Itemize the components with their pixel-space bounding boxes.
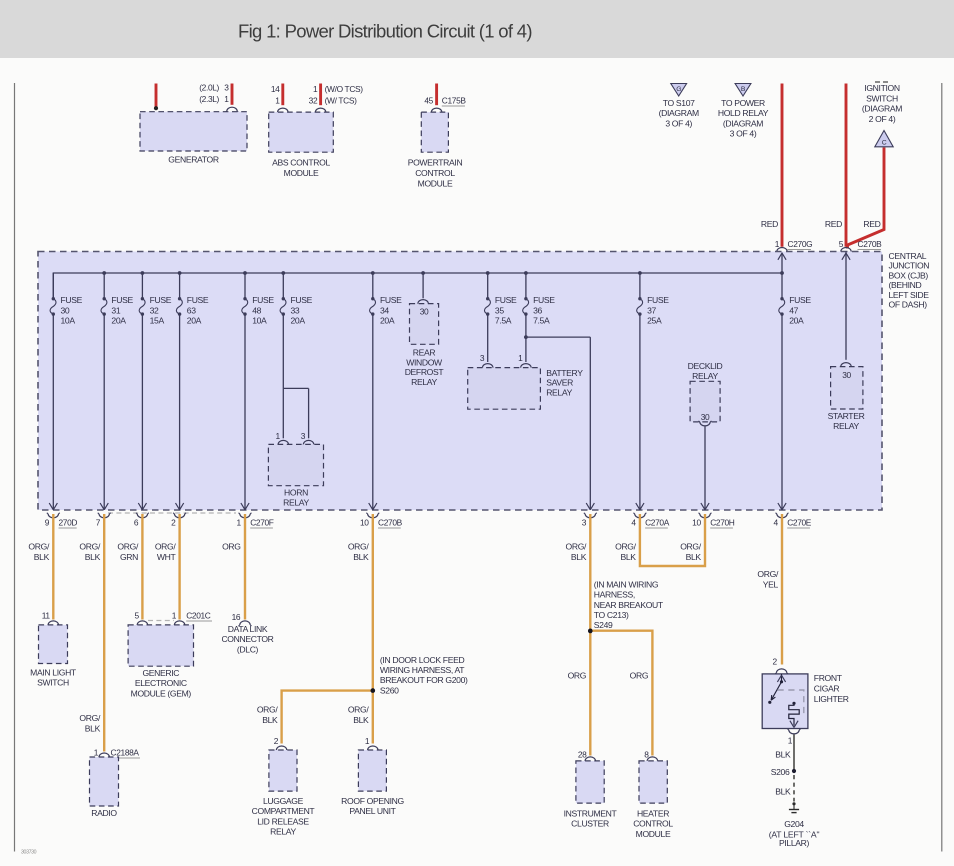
fuse 37 25A <box>637 297 643 316</box>
svg-text:1: 1 <box>313 84 318 94</box>
svg-text:FUSE: FUSE <box>647 295 669 305</box>
svg-text:NEAR BREAKOUT: NEAR BREAKOUT <box>594 600 664 610</box>
svg-text:(W/ TCS): (W/ TCS) <box>325 96 357 106</box>
svg-text:20A: 20A <box>111 316 126 326</box>
svg-text:S249: S249 <box>594 620 613 630</box>
svg-text:MODULE (GEM): MODULE (GEM) <box>131 688 192 698</box>
svg-text:36: 36 <box>533 305 542 315</box>
connector cup pin 4 <box>635 514 645 518</box>
connector dome DLC <box>240 621 250 625</box>
svg-text:ORG: ORG <box>222 542 241 552</box>
svg-text:ORG: ORG <box>568 671 587 681</box>
node bus junction F48 <box>243 271 247 275</box>
svg-text:C270H: C270H <box>710 518 735 528</box>
arrow out of CJB <box>369 503 377 510</box>
wire horn relay pin1 drop <box>282 388 284 438</box>
svg-text:6: 6 <box>134 518 139 528</box>
svg-text:RELAY: RELAY <box>692 371 718 381</box>
svg-text:10: 10 <box>360 518 369 528</box>
wire red from ignition switch triangle C <box>848 148 885 249</box>
svg-text:1: 1 <box>94 748 99 758</box>
svg-text:C270E: C270E <box>787 518 812 528</box>
svg-text:3 OF 4): 3 OF 4) <box>730 129 757 139</box>
svg-text:CONNECTOR: CONNECTOR <box>221 634 273 644</box>
svg-text:ORG/: ORG/ <box>79 713 101 723</box>
instrument cluster box <box>576 761 604 803</box>
svg-text:INSTRUMENT: INSTRUMENT <box>564 809 618 819</box>
svg-text:HARNESS,: HARNESS, <box>594 590 635 600</box>
svg-text:FUSE: FUSE <box>150 295 172 305</box>
roof opening panel box <box>358 750 386 791</box>
connector dome battery saver 3 <box>483 364 493 368</box>
wire F36 to battery saver pin1 <box>525 314 527 362</box>
connector dome C270B <box>841 248 851 252</box>
svg-text:LUGGAGE: LUGGAGE <box>263 796 304 806</box>
svg-text:2: 2 <box>274 736 279 746</box>
svg-text:1: 1 <box>224 94 229 104</box>
svg-text:FUSE: FUSE <box>291 295 313 305</box>
svg-text:20A: 20A <box>380 316 395 326</box>
svg-text:FUSE: FUSE <box>380 295 402 305</box>
svg-text:C270B: C270B <box>378 518 403 528</box>
svg-text:7.5A: 7.5A <box>533 316 550 326</box>
svg-text:TO S107: TO S107 <box>663 98 695 108</box>
switch contact dots cigar <box>780 680 783 683</box>
wire bus <box>53 273 782 299</box>
wire ORG/BLK from pin3 <box>589 514 591 631</box>
svg-text:STARTER: STARTER <box>828 411 865 421</box>
svg-text:30: 30 <box>701 412 710 422</box>
svg-text:32: 32 <box>150 305 159 315</box>
connector dome cigar lighter <box>776 669 786 673</box>
svg-text:(DIAGRAM: (DIAGRAM <box>862 104 902 114</box>
wire red generator pin A <box>155 84 158 108</box>
svg-text:DEFROST: DEFROST <box>405 367 445 377</box>
svg-text:30: 30 <box>61 305 70 315</box>
wire red to C270B <box>845 84 848 247</box>
svg-text:10: 10 <box>692 518 701 528</box>
wire BLK to S206 <box>793 735 795 770</box>
svg-text:4: 4 <box>773 518 778 528</box>
svg-text:DECKLID: DECKLID <box>688 361 723 371</box>
node S260 redraw <box>371 688 376 693</box>
node bus junction F63 <box>178 271 182 275</box>
node generator splice dot <box>154 106 158 110</box>
svg-text:(DIAGRAM: (DIAGRAM <box>723 118 763 128</box>
connector dome PCM <box>431 108 441 112</box>
svg-text:5: 5 <box>134 611 139 621</box>
svg-text:5: 5 <box>839 239 844 249</box>
svg-text:BLK: BLK <box>34 552 50 562</box>
svg-text:FUSE: FUSE <box>495 295 517 305</box>
svg-text:14: 14 <box>271 84 280 94</box>
svg-text:1: 1 <box>275 96 280 106</box>
arrow out of CJB <box>701 503 709 510</box>
svg-text:32: 32 <box>309 96 318 106</box>
svg-text:(DLC): (DLC) <box>237 644 259 654</box>
wire S260 down to roof unit <box>372 691 374 744</box>
connector dome battery saver 1 <box>521 364 531 368</box>
fuse 35 7.5A <box>484 297 490 316</box>
svg-text:1: 1 <box>788 736 793 746</box>
svg-text:2 OF 4): 2 OF 4) <box>869 114 896 124</box>
svg-text:2: 2 <box>171 518 176 528</box>
svg-text:(IN MAIN WIRING: (IN MAIN WIRING <box>594 580 659 590</box>
svg-text:HEATER: HEATER <box>637 809 669 819</box>
wire bus to fuse 30 <box>52 273 54 299</box>
svg-text:ORG/: ORG/ <box>257 705 279 715</box>
svg-text:ORG/: ORG/ <box>155 542 177 552</box>
wire F63 column <box>179 314 181 510</box>
luggage relay box <box>269 750 297 791</box>
svg-text:RED: RED <box>761 219 778 229</box>
svg-text:GENERATOR: GENERATOR <box>168 155 219 165</box>
powertrain control module box <box>421 112 448 152</box>
svg-text:1: 1 <box>236 518 241 528</box>
svg-text:ORG/: ORG/ <box>348 542 370 552</box>
svg-text:BLK: BLK <box>353 715 369 725</box>
svg-text:ORG/: ORG/ <box>348 705 370 715</box>
svg-text:303730: 303730 <box>21 850 37 856</box>
svg-text:ORG/: ORG/ <box>566 542 588 552</box>
svg-text:HOLD RELAY: HOLD RELAY <box>718 108 769 118</box>
connector C201C gray dashed line <box>148 620 174 622</box>
svg-text:35: 35 <box>495 305 504 315</box>
ABS control module box <box>269 112 334 152</box>
connector cup pin 9 <box>48 514 58 518</box>
wire ORG/BLK U-link C270A to C270H <box>640 514 705 566</box>
arrow out of CJB <box>176 503 184 510</box>
svg-text:30: 30 <box>842 370 851 380</box>
fuse 63 20A <box>176 297 182 316</box>
node S206 <box>792 769 796 773</box>
svg-text:10A: 10A <box>61 316 76 326</box>
svg-text:PILLAR): PILLAR) <box>779 838 810 848</box>
svg-text:MODULE: MODULE <box>284 168 319 178</box>
svg-text:LEFT SIDE: LEFT SIDE <box>889 290 930 300</box>
svg-text:10A: 10A <box>252 316 267 326</box>
svg-text:ROOF OPENING: ROOF OPENING <box>341 796 404 806</box>
svg-text:3: 3 <box>224 83 229 93</box>
fuse 47 20A <box>779 297 785 316</box>
wire F36 branch horizontal <box>526 336 590 338</box>
svg-text:ORG/: ORG/ <box>117 542 139 552</box>
svg-text:C270B: C270B <box>858 239 883 249</box>
svg-text:BLK: BLK <box>775 787 791 797</box>
node bus junction defrost <box>421 271 425 275</box>
svg-text:MAIN LIGHT: MAIN LIGHT <box>30 668 77 678</box>
svg-text:SAVER: SAVER <box>546 378 573 388</box>
generator box <box>140 112 247 151</box>
arrow out of CJB <box>241 503 249 510</box>
connector dome heater control <box>647 757 657 761</box>
svg-text:RELAY: RELAY <box>411 377 437 387</box>
wire F34 column <box>372 314 374 510</box>
svg-text:MODULE: MODULE <box>418 178 453 188</box>
svg-text:CENTRAL: CENTRAL <box>889 251 927 261</box>
arrow into CJB at C270G <box>778 253 786 260</box>
svg-text:BLK: BLK <box>85 552 101 562</box>
svg-text:47: 47 <box>789 305 798 315</box>
svg-text:270D: 270D <box>59 518 78 528</box>
wire red generator pin 3/1 <box>231 84 234 105</box>
arrow into CJB at C270B <box>842 253 850 260</box>
svg-text:G: G <box>676 86 681 93</box>
wire F30 column <box>52 314 54 510</box>
svg-text:FUSE: FUSE <box>111 295 133 305</box>
node bus junction F37 <box>638 271 642 275</box>
connector dome instrument cluster <box>585 757 595 761</box>
svg-text:2: 2 <box>772 657 777 667</box>
svg-text:C: C <box>882 140 887 147</box>
connector C270F gray dashed line <box>108 512 236 514</box>
arrow out of CJB <box>586 503 594 510</box>
svg-text:RELAY: RELAY <box>833 421 859 431</box>
wire C270G entry stem <box>781 253 783 274</box>
wire defrost relay feed <box>422 273 424 298</box>
wire ORG/YEL to cigar lighter <box>781 514 783 665</box>
fuse 32 15A <box>139 297 145 316</box>
wire C270B to starter relay <box>845 252 847 360</box>
svg-text:FUSE: FUSE <box>187 295 209 305</box>
svg-text:CIGAR: CIGAR <box>814 683 840 693</box>
svg-text:RED: RED <box>825 219 842 229</box>
node bus junction F31 <box>102 271 106 275</box>
svg-text:(BEHIND: (BEHIND <box>889 280 922 290</box>
svg-text:RELAY: RELAY <box>283 498 309 508</box>
wire F47 column <box>781 314 783 510</box>
connector dome luggage relay <box>276 746 286 750</box>
svg-text:3: 3 <box>301 431 306 441</box>
svg-text:20A: 20A <box>789 316 804 326</box>
wire bus to fuse 33 <box>282 273 284 299</box>
svg-text:MODULE: MODULE <box>636 829 671 839</box>
node bus junction F32 <box>141 271 145 275</box>
svg-text:ORG/: ORG/ <box>757 569 779 579</box>
svg-text:C270G: C270G <box>788 239 813 249</box>
svg-text:FUSE: FUSE <box>252 295 274 305</box>
svg-text:34: 34 <box>380 305 389 315</box>
node S260 <box>371 688 375 692</box>
wire red ABS pin 14/1 <box>281 84 284 106</box>
wire ORG/WHT to GEM pin1 <box>178 514 180 620</box>
svg-text:BLK: BLK <box>85 723 101 733</box>
wire F48 column <box>244 314 246 510</box>
connector cup decklid <box>700 422 710 426</box>
svg-text:3 OF 4): 3 OF 4) <box>665 118 692 128</box>
GEM box <box>128 625 193 666</box>
wire ORG/GRN to GEM pin5 <box>141 514 143 620</box>
main light switch box <box>39 625 68 664</box>
svg-text:GRN: GRN <box>120 552 138 562</box>
svg-text:RELAY: RELAY <box>546 387 572 397</box>
fuse 48 10A <box>242 297 248 316</box>
svg-text:31: 31 <box>111 305 120 315</box>
connector dome radio <box>99 753 109 757</box>
svg-text:WINDOW: WINDOW <box>406 357 443 367</box>
svg-text:PANEL UNIT: PANEL UNIT <box>349 806 396 816</box>
connector dome ABS left <box>278 108 288 112</box>
wire bus to fuse 36 <box>525 273 527 299</box>
svg-text:RELAY: RELAY <box>270 827 296 837</box>
svg-text:WHT: WHT <box>157 552 177 562</box>
wire F36 branch down to pin 3 <box>589 337 591 510</box>
fuse 31 20A <box>101 297 107 316</box>
connector dome generator <box>227 107 237 111</box>
svg-text:CONTROL: CONTROL <box>415 168 455 178</box>
wire BLK dashed to ground <box>793 775 795 802</box>
svg-text:(IN DOOR LOCK FEED: (IN DOOR LOCK FEED <box>380 655 465 665</box>
svg-text:COMPARTMENT: COMPARTMENT <box>252 806 316 816</box>
svg-text:ELECTRONIC: ELECTRONIC <box>135 678 187 688</box>
central junction box CJB <box>38 252 882 511</box>
connector dome GEM pin5 <box>137 621 147 625</box>
connector dome roof unit <box>368 746 378 750</box>
svg-text:BLK: BLK <box>686 552 702 562</box>
svg-text:1: 1 <box>518 353 523 363</box>
switch blade cigar lighter <box>771 682 781 700</box>
starter relay box <box>831 367 863 409</box>
svg-text:11: 11 <box>42 611 51 621</box>
wire horn relay split horizontal <box>283 387 308 389</box>
svg-text:7: 7 <box>96 518 101 528</box>
connector cup pin 10 <box>700 514 710 518</box>
arrow out of CJB <box>49 503 57 510</box>
svg-text:BLK: BLK <box>571 552 587 562</box>
svg-text:7.5A: 7.5A <box>495 316 512 326</box>
wire bus to fuse 31 <box>103 273 105 299</box>
connector dome C270G <box>777 248 787 252</box>
svg-text:48: 48 <box>252 305 261 315</box>
svg-text:FRONT: FRONT <box>814 673 843 683</box>
svg-text:BOX (CJB): BOX (CJB) <box>889 270 929 280</box>
svg-text:FUSE: FUSE <box>789 295 811 305</box>
wire F37 column <box>639 314 641 510</box>
svg-text:C270F: C270F <box>250 518 274 528</box>
off-page triangle B <box>735 84 751 97</box>
connector dome starter relay <box>841 363 851 367</box>
heating element cigar lighter <box>792 702 795 705</box>
node bus junction F33 <box>281 271 285 275</box>
wire S249 branch to heater control <box>590 631 652 756</box>
connector cup pin 10 <box>368 514 378 518</box>
connector cup pin 6 <box>137 514 147 518</box>
page left border <box>14 83 16 852</box>
wire bus to fuse 47 <box>781 273 783 299</box>
svg-text:CONTROL: CONTROL <box>633 819 673 829</box>
battery saver relay box <box>468 368 541 410</box>
svg-text:IGNITION: IGNITION <box>864 83 900 93</box>
header bar <box>0 0 954 58</box>
svg-text:1: 1 <box>275 431 280 441</box>
wire bus to fuse 63 <box>179 273 181 299</box>
arrow out of CJB <box>138 503 146 510</box>
svg-text:ORG/: ORG/ <box>28 542 50 552</box>
svg-text:SWITCH: SWITCH <box>866 93 898 103</box>
svg-text:FUSE: FUSE <box>61 295 83 305</box>
svg-text:C175B: C175B <box>442 96 467 106</box>
wire bus to fuse 35 <box>487 273 489 299</box>
dashed link cigar lighter <box>778 690 804 716</box>
svg-text:3: 3 <box>480 353 485 363</box>
connector dome defrost relay <box>418 300 428 304</box>
node S249 redraw <box>588 629 593 634</box>
svg-text:LID RELEASE: LID RELEASE <box>257 816 309 826</box>
connector dome GEM pin1 <box>174 621 184 625</box>
connector cup pin 7 <box>99 514 109 518</box>
connector cup cigar lighter <box>789 730 799 734</box>
wire F35 to battery saver pin3 <box>487 314 489 362</box>
connector cup pin 4 <box>777 514 787 518</box>
front cigar lighter box <box>762 674 808 729</box>
clipped text remnant <box>875 81 888 83</box>
wire F31 column <box>103 314 105 510</box>
svg-text:BREAKOUT FOR G200): BREAKOUT FOR G200) <box>380 675 468 685</box>
svg-text:LIGHTER: LIGHTER <box>814 694 849 704</box>
connector cup pin 1 <box>240 514 250 518</box>
radio box <box>90 757 119 806</box>
svg-text:WIRING HARNESS, AT: WIRING HARNESS, AT <box>380 665 465 675</box>
svg-text:25A: 25A <box>647 316 662 326</box>
svg-text:YEL: YEL <box>763 579 779 589</box>
off-page triangle G <box>671 84 687 97</box>
wire S260 branch to luggage relay <box>282 691 373 744</box>
fuse 36 7.5A <box>523 297 529 316</box>
svg-text:1: 1 <box>365 736 370 746</box>
svg-text:OF DASH): OF DASH) <box>889 300 928 310</box>
svg-text:G204: G204 <box>784 819 804 829</box>
svg-text:RADIO: RADIO <box>91 808 117 818</box>
page right border <box>941 83 943 852</box>
wire bus to fuse 48 <box>244 273 246 299</box>
node bus junction F35 <box>486 271 490 275</box>
svg-text:REAR: REAR <box>413 348 436 358</box>
wire ORG to DLC <box>244 514 246 620</box>
connector cup pin 3 <box>585 514 595 518</box>
off-page triangle C <box>875 131 893 147</box>
svg-text:45: 45 <box>424 96 433 106</box>
svg-text:30: 30 <box>420 307 429 317</box>
svg-text:TO C213): TO C213) <box>594 610 629 620</box>
decklid relay box <box>690 381 720 422</box>
arrow out of CJB <box>636 503 644 510</box>
wire ORG/BLK to radio <box>103 514 105 752</box>
fuse 33 20A <box>280 297 286 316</box>
wire ORG/BLK to main light switch <box>52 514 54 620</box>
svg-text:FUSE: FUSE <box>533 295 555 305</box>
connector cup pin 2 <box>174 514 184 518</box>
wire horn relay pin3 drop <box>308 388 310 438</box>
svg-text:ORG/: ORG/ <box>79 542 101 552</box>
svg-text:16: 16 <box>232 612 241 622</box>
svg-text:Fig 1: Power Distribution Circ: Fig 1: Power Distribution Circuit (1 of … <box>238 21 532 42</box>
svg-text:ABS CONTROL: ABS CONTROL <box>272 158 330 168</box>
wire F32 column <box>141 314 143 510</box>
node bus junction F36 <box>524 271 528 275</box>
svg-text:GENERIC: GENERIC <box>142 668 179 678</box>
svg-text:ORG/: ORG/ <box>615 542 637 552</box>
wire red PCM pin 45 <box>435 84 438 106</box>
svg-text:63: 63 <box>187 305 196 315</box>
svg-text:DATA LINK: DATA LINK <box>228 624 268 634</box>
horn relay box <box>268 444 323 485</box>
svg-text:1: 1 <box>172 611 177 621</box>
wire red to C270G <box>781 84 784 247</box>
connector dome main light switch <box>48 621 58 625</box>
svg-text:RED: RED <box>863 219 880 229</box>
arrow out of CJB <box>778 503 786 510</box>
svg-text:(W/O TCS): (W/O TCS) <box>325 84 364 94</box>
